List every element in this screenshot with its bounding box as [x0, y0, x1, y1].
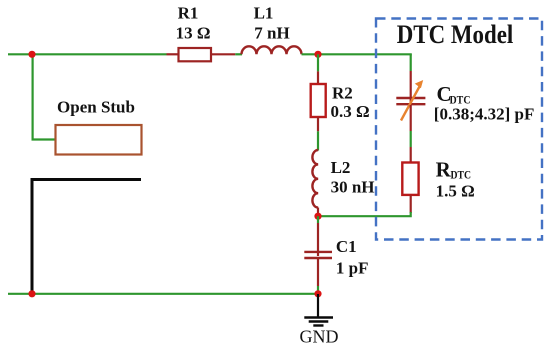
svg-text:[0.38;4.32] pF: [0.38;4.32] pF [434, 105, 535, 124]
svg-text:13 Ω: 13 Ω [176, 24, 211, 43]
svg-text:1.5 Ω: 1.5 Ω [436, 182, 475, 201]
wire bottom horizontal [8, 293, 318, 295]
svg-text:GND: GND [300, 327, 339, 347]
wire below C_DTC red [410, 105, 412, 131]
wire node to R2 green [317, 54, 319, 71]
wire L2 to node [317, 208, 319, 217]
wire lead right of R1 [211, 53, 235, 55]
node top junction [314, 51, 321, 58]
capacitor C1 [304, 252, 332, 258]
node bottom junction [314, 290, 321, 297]
C_DTC labels [434, 82, 535, 124]
inductor L1 [242, 46, 302, 54]
R_DTC labels [436, 157, 475, 200]
wire below C_DTC green [410, 131, 412, 147]
C_DTC variable arrow [401, 80, 423, 121]
svg-text:L1: L1 [254, 4, 274, 23]
svg-text:0.3 Ω: 0.3 Ω [331, 102, 370, 121]
svg-text:Open Stub: Open Stub [57, 98, 135, 117]
wire DTC vertical red to capacitor [410, 71, 412, 97]
inductor L2 [312, 150, 318, 208]
wire L1 to DTC corner [302, 53, 412, 55]
ground [304, 294, 333, 326]
wire lead below R_DTC [410, 195, 412, 213]
node bottom-left [28, 290, 35, 297]
resistor R_DTC [402, 163, 418, 195]
wire DTC vertical green top [410, 54, 412, 71]
capacitor C_DTC [396, 97, 425, 105]
wire above bottom node green [317, 286, 319, 294]
wire lead left of R1 [167, 53, 180, 55]
svg-text:L2: L2 [331, 158, 351, 177]
node mid junction [314, 213, 321, 220]
wire lead above R2 [317, 71, 319, 84]
wire top-left horizontal [8, 53, 167, 55]
svg-text:R: R [436, 157, 452, 181]
open stub transmission line (black L) [32, 180, 141, 293]
wire node to C1 green [317, 216, 319, 223]
wire R_DTC bottom corner to node [318, 212, 411, 216]
svg-text:7 nH: 7 nH [254, 24, 289, 43]
node top-left [28, 51, 35, 58]
wire lead below R2 [317, 117, 319, 131]
wire lead above R_DTC [410, 147, 412, 163]
svg-text:1 pF: 1 pF [336, 259, 369, 278]
wire R1 to L1 [235, 53, 242, 55]
svg-text:30 nH: 30 nH [331, 178, 375, 197]
wire to C1 red [317, 223, 319, 256]
svg-text:DTC: DTC [451, 168, 472, 182]
DTC model dashed box [376, 19, 542, 240]
resistor R2 [311, 84, 326, 117]
svg-text:DTC Model: DTC Model [397, 20, 514, 49]
wire below C1 red [317, 258, 319, 286]
svg-text:R1: R1 [178, 4, 199, 23]
wire R2 to L2 green [317, 131, 319, 150]
resistor R1 [179, 48, 212, 61]
open stub rectangle [56, 125, 142, 155]
svg-text:R2: R2 [332, 84, 353, 103]
svg-text:C1: C1 [336, 237, 357, 256]
wire left vertical to open stub [33, 54, 56, 139]
